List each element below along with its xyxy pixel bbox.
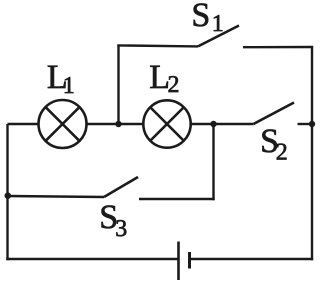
switch S3 blade [104,177,138,197]
wire bottom right (battery to right) [190,258,314,260]
svg-text:1: 1 [212,11,224,37]
wire S2 contact to right vertical [298,123,313,125]
wire node J1 up to S1 branch [117,45,119,124]
wire S3 contact to vertical [139,198,215,200]
wire node J1 to L2 [119,123,145,125]
wire left vertical [6,124,8,260]
wire right vertical [311,47,313,260]
label S1 [191,0,223,37]
wire S1 branch top left [117,45,198,46]
wire node J2 to switch S2 pivot [214,123,254,125]
switch S1 blade [198,26,239,47]
switch S2 blade [254,103,295,125]
label S3 [99,199,127,242]
lamp L2 [143,100,190,147]
lamp L1 [39,100,87,148]
node J2 [210,121,216,127]
node J4 (right vertical / S2 branch) [309,121,315,127]
wire bottom left (to battery) [6,258,178,260]
node J1 [115,121,121,127]
svg-text:2: 2 [276,140,288,166]
node J3 (left vertical / S3 branch) [5,192,12,199]
battery [179,242,190,281]
svg-text:S: S [191,0,210,34]
wire L1 to node J1 [87,123,119,125]
wire S1 contact to top right corner [243,46,313,49]
label L1 [47,59,75,99]
wire S3 branch left [8,196,105,197]
svg-text:2: 2 [168,72,180,98]
wire L2 to node J2 [191,123,214,125]
wire node J2 down to S3 branch [212,124,214,200]
wire main left [8,123,40,125]
svg-text:1: 1 [63,73,75,99]
label S2 [260,123,288,166]
svg-text:3: 3 [115,216,127,242]
label L2 [149,59,179,98]
